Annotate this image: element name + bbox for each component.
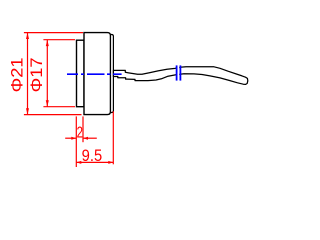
dimension 9.5: dimension line xyxy=(76,161,113,163)
dimension 2: left arrow xyxy=(71,137,76,140)
svg-text:9.5: 9.5 xyxy=(82,147,103,165)
dimension phi21: dimension line xyxy=(27,33,29,115)
body main cylinder xyxy=(84,33,111,115)
dimension 2: right arrow xyxy=(83,137,88,140)
dimension phi17: bottom arrow xyxy=(46,100,49,106)
dimension phi21: bottom extension line xyxy=(24,114,82,116)
cable break mark right xyxy=(179,65,181,80)
dimension 9.5: right arrow xyxy=(108,161,113,164)
dimension phi17: dimension line xyxy=(46,40,48,107)
body back cap xyxy=(111,35,114,113)
cable break mark left xyxy=(176,65,178,80)
dimension 9.5: right extension line xyxy=(112,111,114,164)
dimension 9.5: left arrow xyxy=(76,161,81,164)
body rim (front plate, left) xyxy=(77,40,85,107)
dimension phi17: bottom extension line xyxy=(43,106,75,108)
cable break gap xyxy=(177,64,179,83)
centerline (blue dash-dot axis) xyxy=(67,73,122,75)
dimension phi21: top arrow xyxy=(26,33,29,39)
cable xyxy=(113,67,247,85)
dimension phi17: top arrow xyxy=(46,40,49,46)
dimension phi21: top extension line xyxy=(24,32,83,34)
svg-text:Φ17: Φ17 xyxy=(28,57,46,92)
dimension phi17: top extension line xyxy=(43,39,75,41)
dimension 2: left tail line xyxy=(65,137,76,139)
dimension 2: left extension line (shared with 9.5) xyxy=(75,116,77,167)
dimension 2: right tail line xyxy=(83,137,97,139)
svg-text:2: 2 xyxy=(77,124,83,141)
svg-text:Φ21: Φ21 xyxy=(9,57,27,92)
dimension phi21: bottom arrow xyxy=(26,108,29,114)
dimension 2: right extension line xyxy=(82,116,84,142)
